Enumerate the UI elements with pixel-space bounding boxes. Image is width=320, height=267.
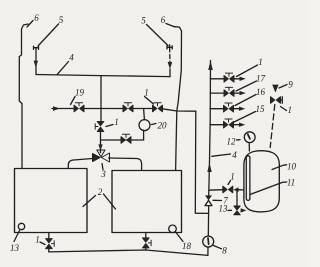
level tube 11 [246, 156, 250, 201]
wire dashed from valve 9 to vessel [270, 105, 275, 148]
wire right riser pipe [174, 27, 182, 171]
wire supply to right riser junction [163, 109, 196, 111]
wire tank 1 drain stub [48, 233, 50, 239]
flow arrow down (above valve 9) [272, 85, 278, 93]
thermometer 13 (circle in tank) [18, 223, 24, 229]
svg-text:5: 5 [141, 16, 146, 26]
svg-text:1: 1 [35, 235, 40, 245]
wire leader to 8 [214, 246, 222, 249]
wire vent stem left [35, 48, 37, 74]
wire vent stem right lower [169, 69, 171, 77]
wire leader to right 5 [147, 25, 169, 46]
svg-text:1: 1 [230, 172, 235, 182]
wire leader right 4 [212, 154, 231, 156]
wire leader 17 [236, 81, 257, 91]
wire leader dash to 20 [152, 124, 157, 125]
valve (right of supply line) [153, 103, 163, 112]
wire leader to 3 [102, 164, 103, 170]
wire leader 2 to tank 2 [104, 194, 116, 209]
svg-text:11: 11 [287, 178, 295, 188]
wire left riser pipe [19, 24, 28, 169]
svg-text:13: 13 [219, 204, 229, 214]
vent T (left) [34, 46, 39, 49]
wire supply line left [52, 108, 74, 110]
wire three-way to tank 2 [109, 158, 142, 171]
flow arrow right (branch 1) [240, 77, 246, 81]
svg-text:3: 3 [100, 169, 106, 179]
svg-text:1: 1 [258, 57, 263, 67]
svg-text:9: 9 [288, 80, 293, 90]
wire below vertical valve 1 [100, 132, 102, 153]
tank 2 (left rectangle) [15, 169, 88, 233]
wire between valve 19 and next valve [84, 108, 123, 110]
gauge 8 needle [207, 238, 210, 244]
gauge 12 [244, 132, 255, 143]
wire top header [36, 75, 170, 77]
wire leader branch 1 [237, 65, 258, 77]
svg-text:18: 18 [182, 241, 192, 251]
wire leader to 5 [38, 24, 59, 46]
flow arrow left (into valve 1) [234, 187, 239, 192]
flow arrow up (header mid) [207, 163, 211, 173]
wire stub to gauge 20 [143, 109, 146, 120]
svg-text:8: 8 [222, 246, 227, 256]
wire leader valve 1 vessel [228, 181, 231, 185]
flow arrow right (branch 3) [239, 107, 245, 111]
svg-text:13: 13 [10, 243, 20, 253]
vent T (right) [167, 45, 172, 49]
wire leader dash to 12 [237, 139, 241, 141]
svg-text:16: 16 [256, 87, 266, 97]
svg-text:1: 1 [144, 88, 149, 98]
wire leader to 13 [14, 231, 20, 242]
wire gauge 12 stem [248, 143, 250, 151]
wire leader to 6 [27, 21, 33, 28]
wire branch 2 [210, 92, 224, 94]
svg-text:6: 6 [34, 13, 39, 23]
wire mid branch down [100, 76, 102, 122]
svg-text:1: 1 [114, 117, 119, 127]
wire gas header (right) [209, 61, 211, 197]
flow arrow up (header top) [208, 61, 213, 71]
wire to third valve [133, 108, 153, 110]
wire leader dash 10 [272, 165, 287, 170]
wire branch 1 [210, 78, 224, 80]
flow arrow down (left vent) [34, 61, 38, 68]
flow arrow right (inlet) [53, 106, 60, 111]
wire leader 11 [250, 182, 287, 195]
svg-text:5: 5 [59, 15, 64, 25]
wire drain tee (vessel line) [236, 191, 238, 207]
wire three-way to tank 1 [68, 159, 92, 169]
wire leader to 19 [71, 97, 76, 105]
svg-text:12: 12 [227, 137, 237, 147]
wire below gauge 8 [207, 247, 209, 255]
svg-text:4: 4 [232, 150, 237, 160]
wire header to vessel [209, 189, 223, 192]
valve (bypass) [121, 134, 131, 143]
wire leader dash to right 13 [228, 209, 232, 211]
wire valve 1 to vessel wall [239, 189, 245, 191]
wire leader to 7 [213, 199, 222, 201]
valve 1 (to vessel) [223, 186, 233, 193]
wire branch 2 outlet [234, 92, 240, 94]
wire leader to 1 [145, 97, 154, 105]
svg-text:4: 4 [69, 53, 74, 63]
wire leader to right 6 [166, 24, 175, 28]
wire branch 3 [210, 108, 223, 110]
valve (branch 2) [224, 87, 234, 96]
wire branch 4 outlet [234, 124, 240, 126]
wire leader 15 [234, 112, 256, 123]
valve (branch 3) [224, 103, 234, 112]
svg-text:20: 20 [158, 121, 168, 131]
wire branch 4 [210, 124, 224, 126]
valve 9 [271, 97, 281, 104]
valve (branch 1) [224, 73, 234, 82]
wire bottom drain line [49, 250, 208, 255]
wire bypass line [101, 139, 144, 141]
wire vent stem right (dashed) [169, 48, 171, 62]
wire below tank 1 drain valve [48, 249, 50, 252]
wire below tank 2 drain valve [145, 248, 147, 250]
valve 13 (drain) [234, 206, 240, 215]
valve (tank 2 drain) [143, 238, 152, 248]
svg-text:10: 10 [287, 162, 297, 172]
flow arrow down (right vent) [168, 62, 173, 69]
wire line from supply junction down [195, 111, 208, 213]
wire leader 2 to tank 1 [83, 196, 96, 207]
valve (branch 4) [224, 119, 234, 128]
wire branch 3 outlet [234, 108, 240, 110]
thermometer 18 (circle in tank) [169, 225, 177, 233]
valve 19 [74, 103, 84, 112]
valve (middle of supply line) [123, 103, 133, 112]
wire branch 1 outlet [234, 78, 240, 80]
wire header lower segment [207, 206, 209, 236]
svg-text:6: 6 [161, 15, 166, 25]
svg-text:1: 1 [288, 105, 293, 115]
wire leader to drain valve 1 [40, 242, 45, 245]
tank 2 (right rectangle) [112, 171, 182, 233]
wire leader to 4 [57, 62, 69, 75]
three-way valve 3 [93, 150, 110, 162]
valve 1 (tank 1 drain) [46, 239, 55, 249]
wire leader to 18 [176, 233, 183, 242]
flow arrow right (drain 13) [241, 208, 247, 212]
svg-text:19: 19 [75, 88, 85, 98]
flow arrow right (branch 2) [240, 91, 246, 95]
valve 1 (vertical, mid branch) [95, 122, 104, 132]
flow arrow down (to three-way) [98, 144, 102, 150]
wire leader 16 [235, 95, 256, 106]
flow arrow right (branch 4) [239, 123, 245, 127]
svg-text:2: 2 [98, 187, 103, 197]
gauge 12 needle [248, 134, 250, 139]
vessel 10 [244, 151, 279, 212]
wire leader to vertical valve 1 [106, 125, 113, 127]
wire leader to 9 [279, 85, 287, 89]
svg-text:15: 15 [256, 104, 266, 114]
wire tank 2 drain stub [145, 233, 147, 239]
wire leader to 1 (near valve 9) [281, 107, 287, 111]
svg-text:17: 17 [256, 74, 266, 84]
gauge 20 [139, 120, 150, 131]
check valve 7 [205, 200, 212, 205]
wire stub gauge 20 bottom [143, 130, 145, 140]
gauge 8 [203, 236, 214, 247]
